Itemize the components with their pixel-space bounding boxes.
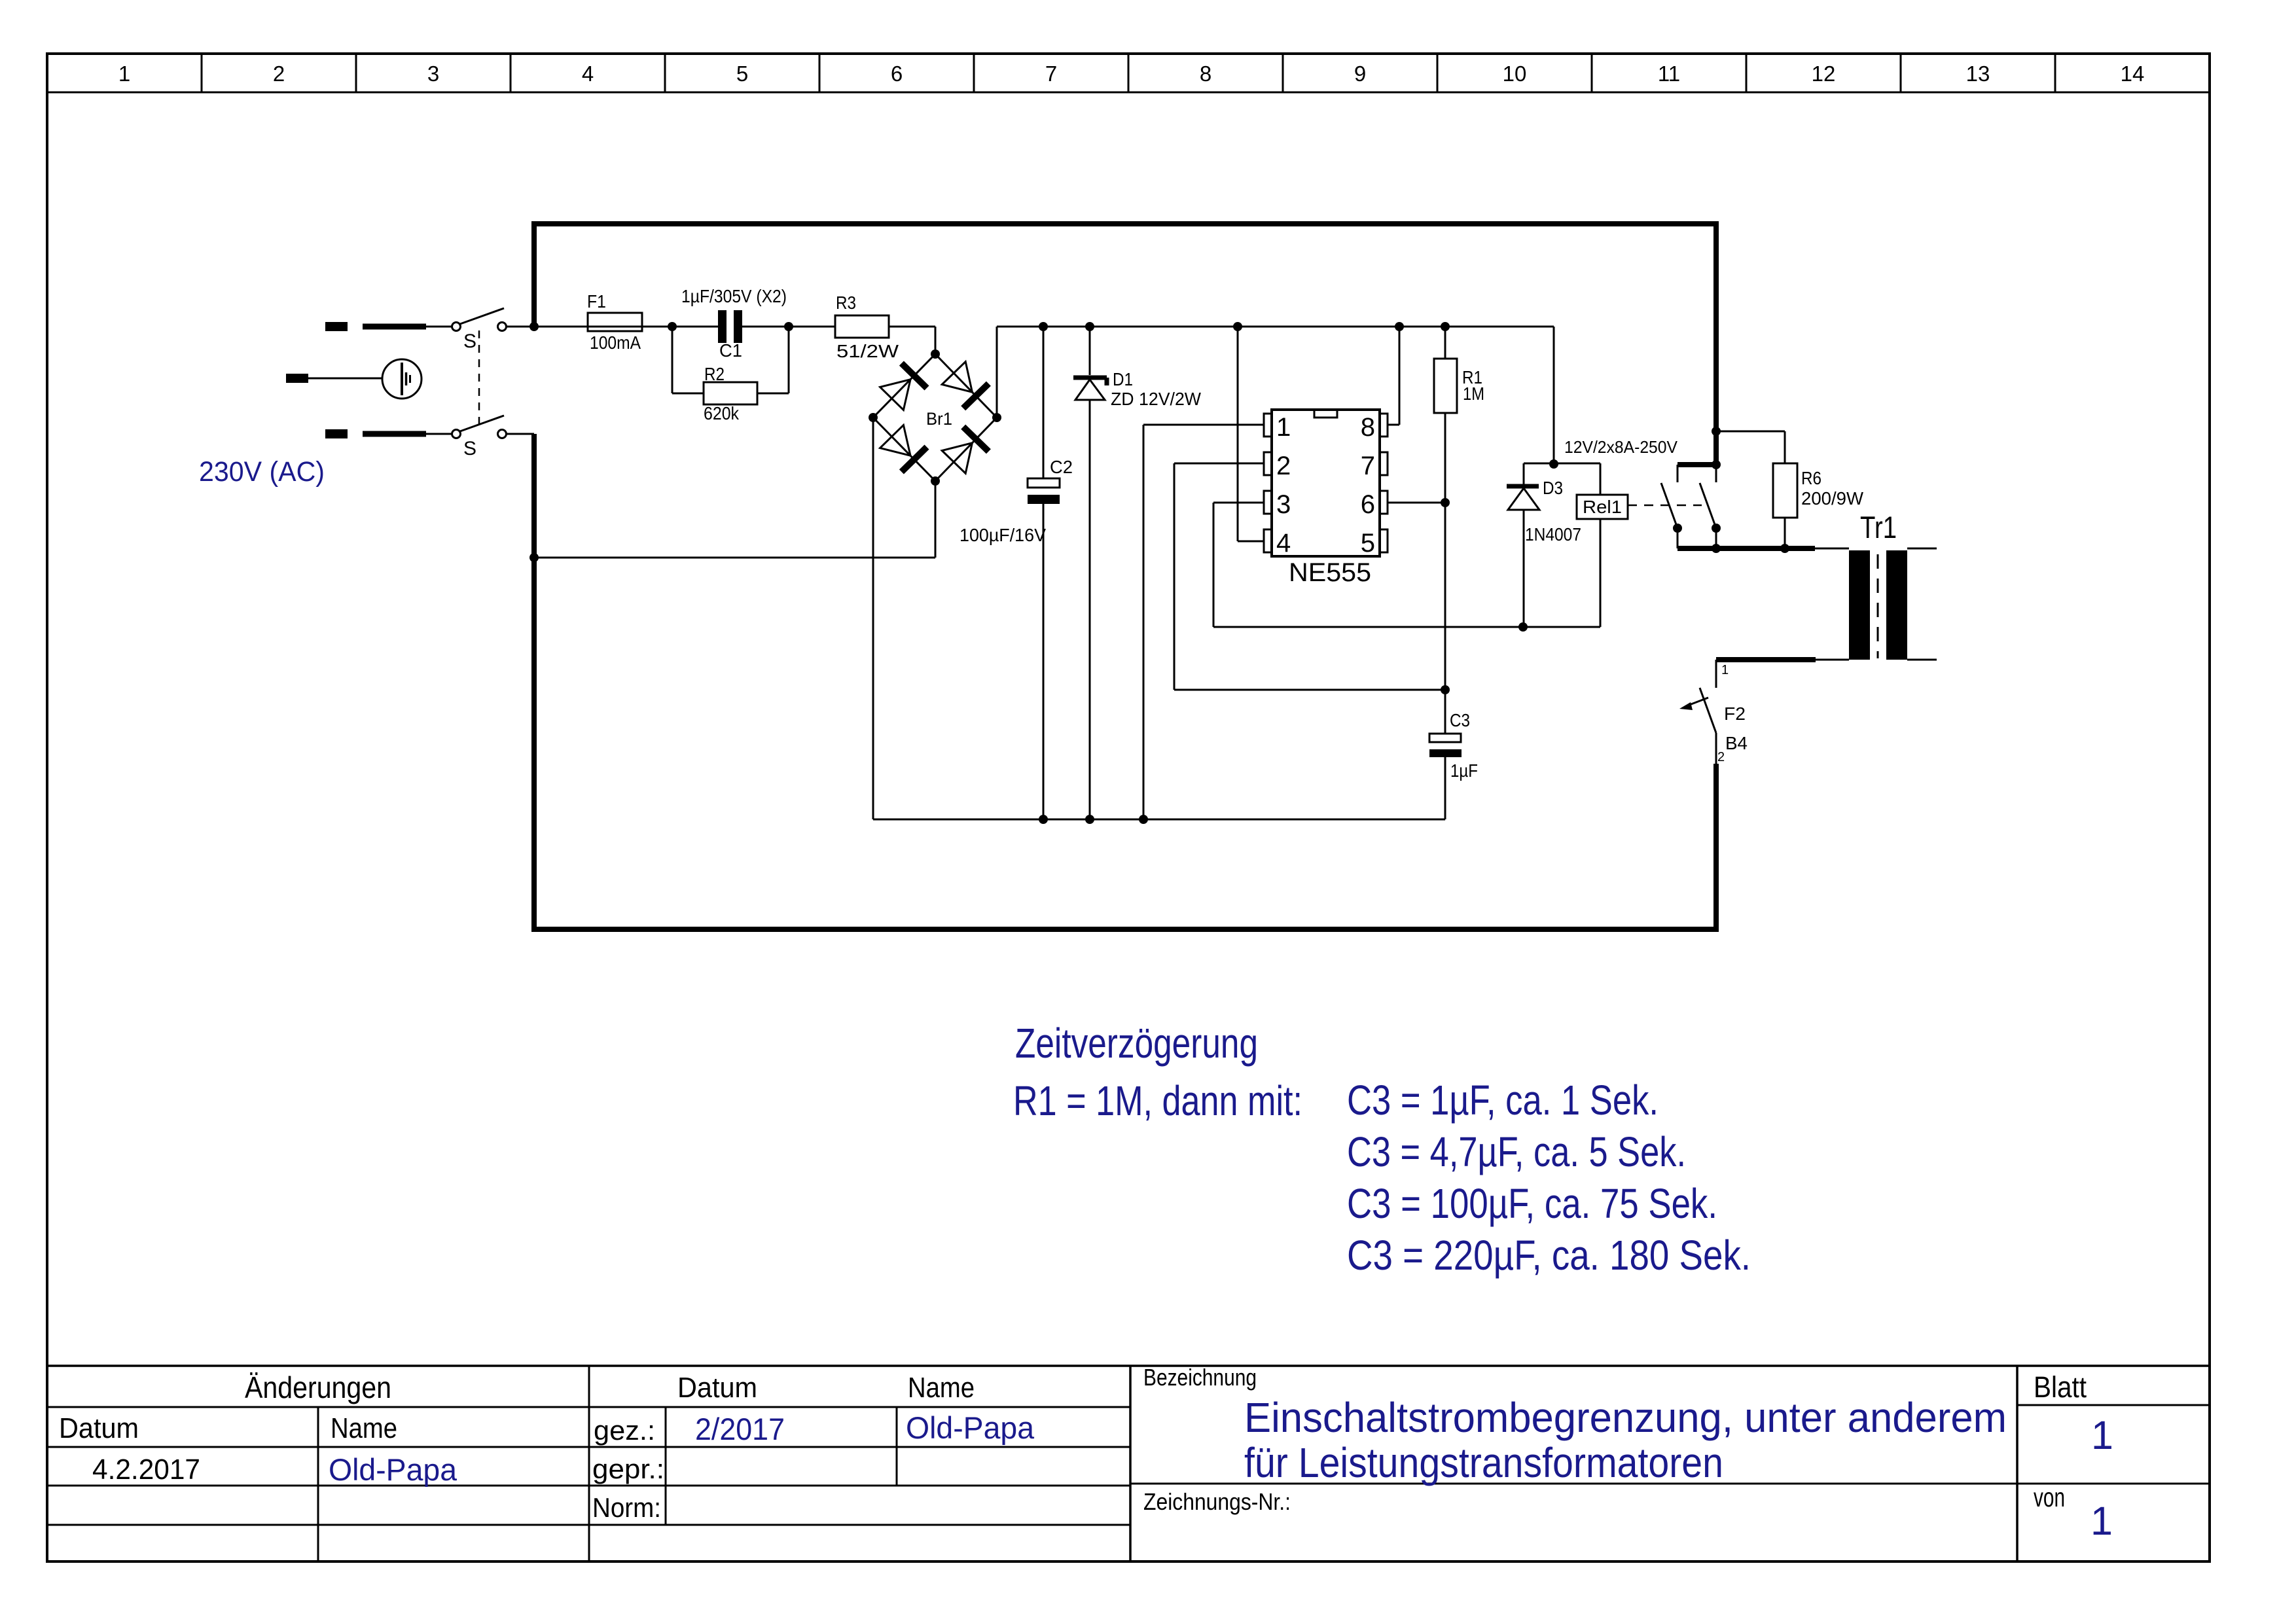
svg-text:13: 13 <box>1966 62 1990 86</box>
svg-text:1: 1 <box>2090 1499 2113 1543</box>
svg-text:Old-Papa: Old-Papa <box>329 1452 457 1487</box>
svg-text:14: 14 <box>2121 62 2145 86</box>
svg-text:620k: 620k <box>704 403 740 423</box>
svg-text:12: 12 <box>1812 62 1836 86</box>
svg-text:F1: F1 <box>587 291 606 312</box>
svg-text:100mA: 100mA <box>590 332 641 353</box>
svg-text:1µF: 1µF <box>1450 760 1478 781</box>
svg-text:S: S <box>463 438 476 459</box>
svg-text:R2: R2 <box>704 364 725 384</box>
svg-text:NE555: NE555 <box>1289 558 1371 587</box>
svg-text:Datum: Datum <box>59 1412 139 1444</box>
svg-text:2: 2 <box>273 62 285 86</box>
svg-text:gez.:: gez.: <box>594 1415 655 1446</box>
svg-text:C3 = 4,7µF, ca. 5 Sek.: C3 = 4,7µF, ca. 5 Sek. <box>1347 1128 1686 1175</box>
svg-text:C1: C1 <box>719 340 742 361</box>
svg-text:2: 2 <box>1276 452 1291 480</box>
svg-text:D3: D3 <box>1543 478 1563 498</box>
svg-text:S: S <box>463 330 476 352</box>
svg-text:9: 9 <box>1354 62 1366 86</box>
svg-text:10: 10 <box>1503 62 1527 86</box>
svg-text:200/9W: 200/9W <box>1801 488 1864 508</box>
svg-text:1: 1 <box>2091 1413 2113 1457</box>
svg-text:4.2.2017: 4.2.2017 <box>92 1454 200 1486</box>
svg-text:C3: C3 <box>1450 710 1470 730</box>
svg-text:Name: Name <box>908 1372 975 1404</box>
svg-text:R6: R6 <box>1801 468 1821 488</box>
svg-text:D1: D1 <box>1113 369 1133 389</box>
svg-text:Name: Name <box>331 1412 397 1444</box>
svg-text:8: 8 <box>1200 62 1211 86</box>
svg-text:7: 7 <box>1361 452 1375 480</box>
svg-text:5: 5 <box>1361 529 1375 558</box>
svg-text:ZD 12V/2W: ZD 12V/2W <box>1111 389 1202 409</box>
svg-text:R3: R3 <box>836 293 856 313</box>
svg-text:Norm:: Norm: <box>592 1492 661 1523</box>
svg-text:1: 1 <box>118 62 130 86</box>
svg-text:Zeitverzögerung: Zeitverzögerung <box>1015 1020 1258 1067</box>
svg-text:R1 = 1M, dann mit:: R1 = 1M, dann mit: <box>1013 1077 1302 1124</box>
svg-text:C3 = 1µF, ca. 1 Sek.: C3 = 1µF, ca. 1 Sek. <box>1347 1077 1659 1124</box>
svg-text:100µF/16V: 100µF/16V <box>960 525 1046 545</box>
svg-text:2/2017: 2/2017 <box>695 1412 785 1446</box>
svg-text:11: 11 <box>1658 62 1680 86</box>
svg-text:12V/2x8A-250V: 12V/2x8A-250V <box>1564 437 1678 457</box>
svg-text:6: 6 <box>891 62 903 86</box>
svg-text:51/2W: 51/2W <box>836 341 899 361</box>
svg-text:C3 = 100µF, ca. 75 Sek.: C3 = 100µF, ca. 75 Sek. <box>1347 1180 1717 1227</box>
svg-text:4: 4 <box>1276 529 1291 558</box>
svg-text:7: 7 <box>1045 62 1057 86</box>
svg-text:Blatt: Blatt <box>2034 1370 2087 1404</box>
svg-text:1M: 1M <box>1463 383 1484 404</box>
svg-text:1: 1 <box>1276 413 1291 442</box>
svg-text:C2: C2 <box>1050 457 1073 477</box>
svg-text:Einschaltstrombegrenzung, unte: Einschaltstrombegrenzung, unter anderem <box>1244 1394 2007 1441</box>
svg-text:Datum: Datum <box>677 1372 757 1404</box>
svg-text:Änderungen: Änderungen <box>245 1370 391 1404</box>
svg-text:4: 4 <box>582 62 594 86</box>
svg-text:Old-Papa: Old-Papa <box>906 1410 1035 1445</box>
svg-text:Br1: Br1 <box>926 409 952 429</box>
svg-text:Zeichnungs-Nr.:: Zeichnungs-Nr.: <box>1143 1488 1291 1515</box>
svg-text:Tr1: Tr1 <box>1860 510 1897 544</box>
svg-text:3: 3 <box>427 62 439 86</box>
svg-text:C3 = 220µF, ca. 180 Sek.: C3 = 220µF, ca. 180 Sek. <box>1347 1232 1751 1279</box>
svg-text:Rel1: Rel1 <box>1583 497 1622 517</box>
svg-text:6: 6 <box>1361 490 1375 519</box>
svg-text:gepr.:: gepr.: <box>592 1454 664 1484</box>
svg-text:1: 1 <box>1721 663 1729 677</box>
svg-text:8: 8 <box>1361 413 1375 442</box>
svg-text:von: von <box>2034 1482 2065 1512</box>
svg-text:2: 2 <box>1717 750 1725 764</box>
svg-text:F2: F2 <box>1724 704 1746 724</box>
svg-text:1N4007: 1N4007 <box>1525 524 1581 544</box>
svg-text:Bezeichnung: Bezeichnung <box>1143 1364 1257 1391</box>
svg-text:1µF/305V (X2): 1µF/305V (X2) <box>681 286 787 306</box>
svg-text:230V (AC): 230V (AC) <box>199 456 325 488</box>
svg-text:5: 5 <box>736 62 748 86</box>
svg-text:3: 3 <box>1276 490 1291 519</box>
svg-text:B4: B4 <box>1725 733 1748 753</box>
svg-text:für Leistungstransformatoren: für Leistungstransformatoren <box>1244 1439 1723 1486</box>
